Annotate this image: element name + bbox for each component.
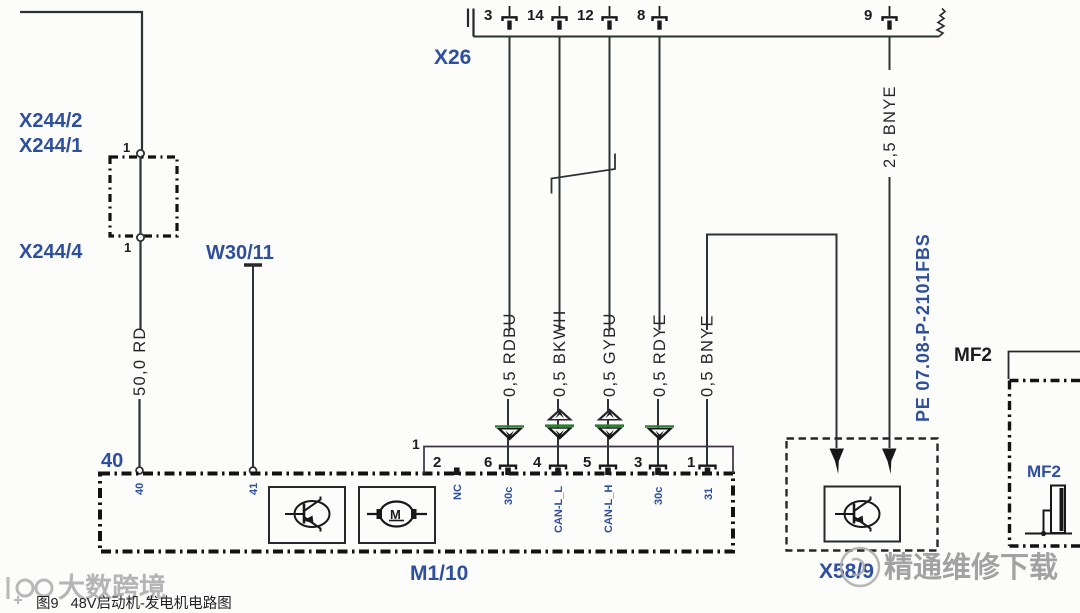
X26 pin 14 [553,6,567,30]
connector X26 edge marks [468,9,474,37]
svg-text:NC: NC [452,484,464,500]
svg-text:0,5 RDBU: 0,5 RDBU [501,312,519,397]
ground wire W30/11 down to pin 41 [252,265,254,467]
arrow into M1/10 pin 3 [645,427,674,441]
arrow into M1/10 pin 6 [495,427,524,441]
wire through X244 box [139,157,141,234]
watermark logo bottom-right [841,548,879,586]
motor symbol M [367,502,427,527]
junction box X58/9 housing (dashed box) [787,439,938,551]
svg-text:CAN-L_H: CAN-L_H [603,485,615,533]
svg-text:14: 14 [527,7,544,24]
M1/10 pin 4 [550,466,566,475]
svg-text:30c: 30c [653,487,665,505]
X26 pin 3 [503,6,517,30]
svg-text:0,5 BKWH: 0,5 BKWH [551,310,569,397]
watermark logo bottom-left [8,577,52,604]
arrow into X58/9 from BNYE wire [830,449,845,475]
motor block in M1/10 [359,487,435,543]
svg-text:0,5 RDYE: 0,5 RDYE [651,313,669,397]
svg-text:4: 4 [533,454,542,471]
X26 pin 9 [883,6,897,30]
svg-text:W30/11: W30/11 [206,242,274,264]
wire X26 pin9 down to X58/9, upper segment [889,37,891,71]
wire pin3 to M1/10 pin6, upper segment [509,37,511,331]
svg-text:6: 6 [484,454,492,471]
svg-text:8: 8 [637,7,645,24]
svg-text:MF2: MF2 [1027,462,1061,481]
fuse box MF2 housing (dash-dot box, cut at right edge) [1010,381,1080,547]
fuse element in MF2 [1025,486,1072,537]
wire pin14 lower segment [557,399,559,465]
svg-text:2: 2 [433,454,441,471]
transistor block in M1/10 [269,487,345,543]
svg-text:图9 48V启动机-发电机电路图: 图9 48V启动机-发电机电路图 [36,595,232,612]
svg-text:50,0 RD: 50,0 RD [131,326,149,396]
node pin 1 of X244/2 [137,150,144,157]
svg-text:30c: 30c [503,487,515,505]
M1/10 pin 5 [600,466,616,475]
ground W30/11 bar [244,263,262,266]
M1/10 pin 6 [500,466,516,475]
svg-text:12: 12 [577,7,594,24]
wire pin14 upper segment [559,37,561,331]
svg-text:X244/1: X244/1 [19,135,82,157]
node pin 41 of M1/10 [250,467,257,474]
control unit M1/10 housing (dash-dot box) [100,474,733,552]
twisted-pair mark across CAN wires [552,154,616,194]
svg-text:40: 40 [101,450,123,472]
double arrow (CAN) into M1/10 pin 4 [545,409,574,440]
wire pin8 upper segment [659,37,661,331]
svg-text:41: 41 [248,483,260,495]
wire 50,0 RD upper segment [139,241,141,330]
svg-text:MF2: MF2 [954,345,992,366]
wire M1/10 pin1 up and over to X58/9 [707,235,837,466]
transistor symbol (X58/9) [835,497,880,532]
svg-text:M1/10: M1/10 [410,562,468,585]
MF2 leader line [1009,352,1080,380]
svg-text:5: 5 [583,454,591,471]
motor underline [389,520,404,522]
svg-text:31: 31 [703,488,715,500]
wire pin9 lower segment [889,177,891,448]
svg-text:0,5 BNYE: 0,5 BNYE [699,314,717,397]
starter-generator block in X58/9 [825,487,901,542]
wire pin3 lower segment [507,399,509,465]
svg-text:2,5 BNYE: 2,5 BNYE [881,85,899,168]
wire 50,0 RD lower segment [138,399,140,467]
connector X244 housing (dashed box) [110,157,177,236]
arrow into X58/9 from 2,5 BNYE wire [882,449,897,475]
X26 pin 8 [653,6,667,30]
connector block on M1/10 (thin box) [424,447,733,474]
svg-text:1: 1 [123,140,130,155]
svg-text:X244/2: X244/2 [19,110,82,132]
M1/10 pin 1 [700,466,716,475]
svg-text:PE 07.08-P-2101FBS: PE 07.08-P-2101FBS [913,234,933,423]
svg-text:CAN-L_L: CAN-L_L [553,486,565,533]
svg-text:1: 1 [412,436,420,452]
svg-text:X244/4: X244/4 [19,241,83,263]
M1/10 pin 2 (NC) square [454,468,460,476]
svg-text:3: 3 [634,454,642,471]
double arrow (CAN) into M1/10 pin 5 [595,409,624,440]
connector X26 rail [474,36,940,38]
svg-text:0,5 GYBU: 0,5 GYBU [601,312,619,397]
node pin 40 of M1/10 [136,467,143,474]
svg-text:1: 1 [124,240,131,255]
wire pin8 lower segment [657,399,659,465]
transistor symbol Q (M1/10) [285,497,330,532]
svg-text:9: 9 [864,7,872,24]
svg-text:X26: X26 [434,46,471,69]
svg-text:1: 1 [687,454,695,471]
wire pin12 upper segment [609,37,611,331]
svg-text:3: 3 [484,7,492,24]
X26 pin 12 [603,6,617,30]
wire-break squiggle at right end of rail [937,9,945,37]
wire from battery positive to node X244/2 (top-left) [20,12,142,150]
M1/10 pin 3 [650,466,666,475]
wire pin12 lower segment [607,399,609,465]
node pin 1 of X244/4 [137,234,144,241]
svg-text:40: 40 [134,483,146,495]
svg-text:精通维修下载: 精通维修下载 [884,551,1058,584]
